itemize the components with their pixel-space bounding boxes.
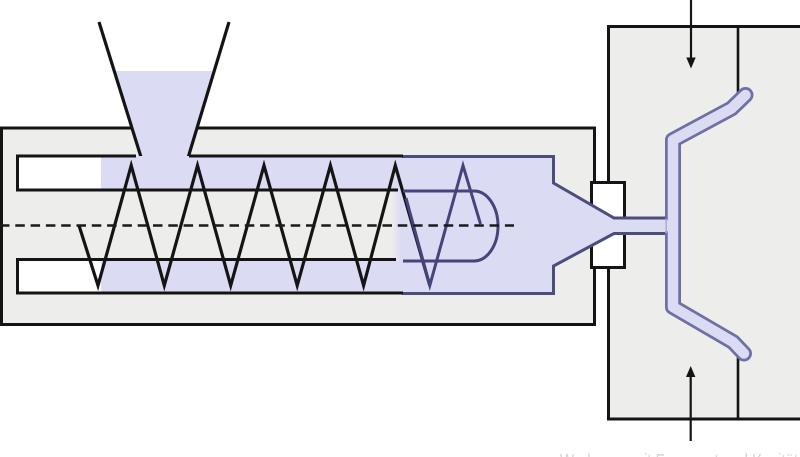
svg-text:Werkzeug mit Formnest und Kavi: Werkzeug mit Formnest und Kavität: [560, 451, 798, 457]
hopper wall left: [99, 22, 143, 164]
molded part outline: [673, 95, 746, 354]
melt pool outline upper: [402, 157, 666, 219]
hopper melt fill: [114, 71, 214, 191]
melt pool outline lower: [402, 234, 666, 294]
screw flights in melt: [406, 166, 481, 286]
barrel top channel white: [18, 158, 418, 189]
bottom channel left edge: [16, 258, 19, 295]
barrel top channel melt: [101, 156, 421, 189]
top channel left edge: [16, 155, 19, 191]
clamp arrow top: [686, 0, 695, 69]
clamp arrow bottom: [686, 366, 695, 441]
sprue junction line: [665, 219, 667, 233]
top channel lower line: [16, 189, 398, 192]
molded part core: [673, 95, 746, 354]
hopper wall right: [186, 22, 229, 164]
nozzle seat block: [592, 183, 625, 268]
barrel: [2, 128, 595, 325]
bottom channel upper line: [16, 258, 396, 261]
screw flights black: [79, 166, 430, 286]
barrel bottom channel white: [18, 261, 418, 292]
sprue runner fill: [615, 220, 672, 231]
screw tip: [403, 191, 498, 261]
top channel upper line right of hopper: [189, 155, 403, 158]
mold block: [609, 27, 800, 420]
bottom channel lower line: [16, 292, 403, 295]
barrel bottom channel melt: [101, 261, 421, 292]
mold parting line lower: [737, 352, 740, 419]
top channel upper line left of hopper: [16, 155, 136, 158]
screw axis dashed centerline: [0, 224, 514, 227]
mold parting line upper: [737, 26, 740, 98]
